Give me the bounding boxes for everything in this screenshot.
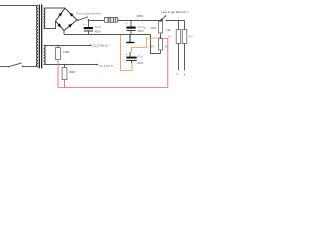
svg-text:100R: 100R	[69, 70, 75, 74]
svg-text:This is attached here: This is attached here	[76, 11, 101, 15]
svg-text:4k7: 4k7	[168, 34, 173, 38]
wire switch to transformer	[23, 66, 37, 68]
wire drop to Rc	[184, 21, 186, 30]
orange wire ground drop	[121, 35, 133, 71]
svg-text:400k: 400k	[150, 26, 156, 30]
svg-text:100V: 100V	[137, 61, 143, 65]
wire mains bottom to switch	[0, 66, 9, 68]
capacitor C1 47uF 450V	[83, 22, 101, 35]
svg-text:47uF: 47uF	[95, 25, 101, 29]
wire HT secondary bottom to bridge left vertex	[45, 21, 56, 29]
svg-text:How to get 280 volt ?: How to get 280 volt ?	[162, 10, 189, 14]
resistor R100-1	[56, 46, 70, 60]
resistor Rc 4k7	[182, 30, 193, 44]
svg-text:450V: 450V	[95, 30, 101, 34]
diode D1 upper-left	[58, 12, 62, 16]
svg-text:V1.2 Pin 9: V1.2 Pin 9	[99, 64, 113, 68]
capacitor C2 47uF 450V	[126, 22, 144, 35]
capacitor C2 lead	[130, 21, 132, 27]
ground symbol below rail	[126, 35, 134, 44]
transformer T1 secondary heater winding	[44, 46, 46, 65]
node divider junction	[160, 37, 162, 39]
wire HT secondary top to bridge apex	[45, 7, 66, 9]
heater wire pin4	[45, 45, 90, 47]
annotation arrow to divider tap	[160, 15, 166, 21]
orange wire tap to C3 plus	[132, 38, 160, 52]
resistor R100-2	[62, 64, 75, 80]
transformer T1 secondary HT winding	[44, 8, 45, 29]
svg-text:+: +	[83, 22, 85, 26]
resistor R2 40k	[149, 38, 162, 53]
svg-text:47uF: 47uF	[137, 55, 143, 59]
diode D2 upper-right	[70, 13, 74, 17]
wire drop to Rb	[178, 21, 180, 30]
resistor R series (color bands)	[104, 17, 118, 22]
red stub from R100-2	[64, 80, 66, 88]
node 380V junction dot	[130, 20, 132, 22]
B+ rail	[89, 20, 161, 22]
svg-text:30k: 30k	[164, 45, 169, 49]
red bottom rail	[58, 87, 168, 89]
transformer T1 primary winding	[37, 6, 39, 67]
svg-text:+: +	[126, 52, 128, 56]
bridge rectifier diamond	[56, 8, 78, 30]
lead Rb down	[178, 44, 180, 71]
svg-text:+V1.2 Pin 4+: +V1.2 Pin 4+	[91, 44, 110, 48]
diode D3 lower-left	[57, 23, 61, 27]
wire mains top	[0, 5, 37, 7]
wire top right to meter resistors	[166, 20, 168, 22]
svg-text:+: +	[126, 22, 128, 26]
ground rail	[64, 34, 151, 36]
transformer T1 core	[39, 5, 43, 69]
svg-text:4k7: 4k7	[189, 34, 194, 38]
svg-text:100R: 100R	[63, 50, 69, 54]
switch S1	[8, 63, 23, 67]
wire R2 bottom to ground rail drop	[151, 35, 161, 54]
lead Rc down	[184, 44, 186, 71]
wire bridge minus to ground rail	[63, 31, 65, 35]
resistor Rb 1.8k	[166, 28, 181, 44]
svg-text:380V: 380V	[137, 14, 144, 18]
heater wire pin9	[45, 64, 98, 66]
capacitor C3 47uF 100V	[126, 52, 144, 65]
capacitor C1 lead	[88, 21, 90, 28]
switch on B+ output	[77, 17, 89, 21]
svg-text:1.8k: 1.8k	[166, 28, 172, 32]
diode D4 lower-right	[68, 24, 72, 28]
resistor R1 400k	[144, 20, 163, 38]
svg-text:R: R	[144, 26, 146, 30]
node heater top junction	[57, 45, 59, 47]
red wire from R100-1 down	[57, 60, 59, 88]
red wire right riser	[162, 39, 168, 88]
